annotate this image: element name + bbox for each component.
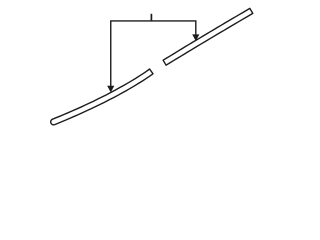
bracket: horizontal line (110, 20, 196, 22)
right arrowhead (192, 34, 199, 41)
right arrow line (195, 21, 197, 35)
left arrow line (110, 21, 112, 86)
lower slat (left piece of broken bar) (51, 69, 153, 125)
upper slat (right piece of broken bar) (163, 8, 253, 65)
tick mark at middle of bracket (150, 14, 152, 21)
left arrowhead (107, 86, 114, 93)
